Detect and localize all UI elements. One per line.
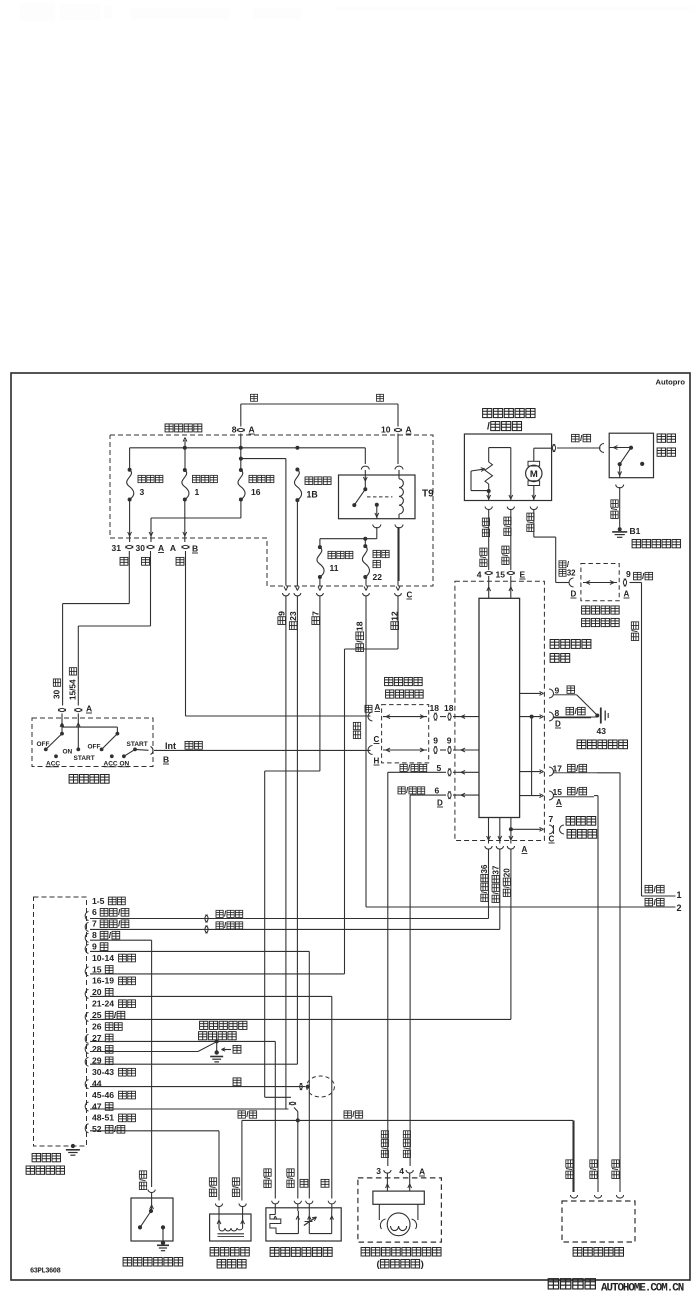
- svg-text:3: 3: [140, 487, 145, 497]
- svg-text:21-24: 21-24: [92, 999, 114, 1009]
- svg-text:A: A: [375, 703, 381, 712]
- svg-text:30-43: 30-43: [92, 1067, 114, 1077]
- svg-text:15: 15: [553, 787, 563, 797]
- svg-text:10: 10: [381, 425, 391, 435]
- svg-text:6: 6: [435, 786, 440, 796]
- svg-text:C: C: [549, 835, 555, 844]
- svg-text:D: D: [555, 720, 561, 729]
- svg-text:A: A: [556, 798, 562, 807]
- svg-text:36: 36: [480, 864, 489, 874]
- svg-text:48-51: 48-51: [92, 1113, 114, 1123]
- svg-text:26: 26: [92, 1021, 102, 1031]
- svg-text:AUTOHOME.COM.CN: AUTOHOME.COM.CN: [601, 1283, 684, 1294]
- svg-text:B: B: [192, 544, 198, 554]
- svg-text:52: 52: [92, 1124, 102, 1134]
- svg-text:A: A: [86, 704, 92, 714]
- svg-text:B1: B1: [630, 526, 641, 536]
- svg-text:7: 7: [92, 919, 97, 929]
- svg-text:47: 47: [92, 1101, 102, 1111]
- svg-text:C: C: [407, 591, 413, 600]
- svg-text:5: 5: [437, 763, 442, 773]
- svg-text:4: 4: [399, 1166, 404, 1176]
- svg-text:25: 25: [92, 1010, 102, 1020]
- svg-text:8: 8: [232, 425, 237, 435]
- svg-text:A: A: [522, 845, 528, 854]
- svg-text:A: A: [419, 1167, 425, 1177]
- svg-text:A: A: [406, 425, 412, 435]
- svg-text:ON: ON: [63, 749, 73, 756]
- svg-text:16: 16: [251, 487, 261, 497]
- svg-text:15: 15: [92, 964, 102, 974]
- svg-text:9: 9: [447, 736, 452, 746]
- svg-text:START: START: [127, 741, 148, 748]
- svg-text:T9: T9: [422, 489, 434, 500]
- svg-text:C: C: [374, 735, 380, 744]
- svg-text:/: /: [487, 421, 490, 432]
- svg-text:30: 30: [53, 689, 62, 699]
- svg-text:10-14: 10-14: [92, 953, 114, 963]
- svg-text:D: D: [437, 799, 443, 808]
- svg-text:8: 8: [92, 930, 97, 940]
- svg-text:3: 3: [376, 1166, 381, 1176]
- svg-text:START: START: [74, 755, 95, 762]
- svg-text:1: 1: [677, 890, 682, 900]
- svg-text:30: 30: [136, 543, 146, 553]
- svg-text:H: H: [374, 757, 380, 766]
- svg-text:OFF: OFF: [37, 741, 50, 748]
- svg-text:37: 37: [491, 865, 500, 875]
- svg-text:28: 28: [92, 1044, 102, 1054]
- svg-text:4: 4: [477, 570, 482, 580]
- svg-text:7: 7: [311, 611, 321, 616]
- svg-text:1-5: 1-5: [92, 896, 105, 906]
- svg-text:1: 1: [195, 487, 200, 497]
- svg-text:43: 43: [597, 726, 607, 736]
- svg-text:18: 18: [355, 621, 365, 631]
- svg-text:2: 2: [677, 903, 682, 913]
- svg-text:23: 23: [288, 611, 298, 621]
- svg-text:7: 7: [549, 814, 554, 824]
- svg-text:22: 22: [373, 572, 383, 582]
- svg-text:B: B: [163, 755, 169, 765]
- svg-text:11: 11: [330, 563, 339, 573]
- svg-text:A: A: [624, 590, 630, 599]
- svg-text:A: A: [249, 425, 255, 435]
- svg-text:9: 9: [92, 941, 97, 951]
- svg-text:9: 9: [433, 736, 438, 746]
- svg-text:Autopro: Autopro: [655, 378, 685, 387]
- svg-text:OFF: OFF: [88, 744, 101, 751]
- svg-text:6: 6: [92, 907, 97, 917]
- svg-text:45-46: 45-46: [92, 1090, 114, 1100]
- svg-text:15/54: 15/54: [69, 679, 78, 700]
- svg-text:18: 18: [430, 703, 440, 713]
- svg-text:17: 17: [553, 764, 563, 774]
- svg-text:1B: 1B: [307, 490, 318, 500]
- svg-text:63PL3608: 63PL3608: [30, 1268, 61, 1276]
- svg-text:Int: Int: [165, 741, 176, 751]
- svg-text:9: 9: [555, 686, 560, 696]
- svg-text:9: 9: [626, 569, 631, 579]
- svg-text:): ): [421, 1259, 424, 1270]
- svg-text:D: D: [571, 590, 577, 599]
- svg-text:A: A: [158, 543, 164, 553]
- svg-text:16-19: 16-19: [92, 976, 114, 986]
- svg-text:15: 15: [496, 570, 506, 580]
- svg-text:A: A: [170, 543, 176, 553]
- svg-text:E: E: [520, 570, 526, 580]
- svg-text:M: M: [530, 469, 538, 480]
- svg-text:18: 18: [444, 703, 454, 713]
- svg-text:20: 20: [92, 987, 102, 997]
- svg-text:31: 31: [112, 543, 122, 553]
- svg-text:20: 20: [503, 868, 512, 878]
- svg-text:9: 9: [277, 611, 287, 616]
- svg-text:32: 32: [567, 568, 576, 577]
- svg-text:12: 12: [390, 611, 400, 621]
